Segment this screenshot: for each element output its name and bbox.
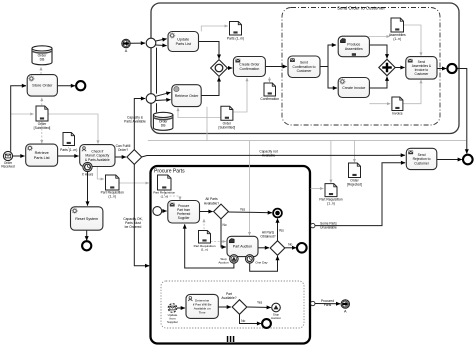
svg-text:(1..n): (1..n)	[161, 194, 168, 198]
svg-text:(1..n): (1..n)	[108, 195, 116, 199]
wire: gw3 yes to Stop Auction throw	[247, 306, 271, 309]
svg-text:No: No	[288, 242, 292, 246]
wire: timer to Reset System	[87, 172, 89, 206]
svg-text:Procure Parts: Procure Parts	[154, 169, 185, 175]
task: Part Auction	[227, 236, 258, 256]
gateway: Can Fulfill Order?	[116, 144, 142, 165]
association: Produce Assemblies to Assemblies doc	[369, 36, 390, 38]
wire: Capacity not Available flow	[142, 155, 405, 157]
wire: inclusive gw to Create Order Confirmation	[227, 67, 232, 69]
svg-text:Customer: Customer	[414, 161, 430, 165]
wire: circle2 to Retrieve Order a	[156, 92, 171, 96]
association: Check task to Part Requisition doc	[97, 167, 104, 179]
wire: circle rail lower	[156, 103, 158, 112]
task: Send Confirmation to Customer	[288, 56, 320, 78]
gateway: inclusive merge	[211, 60, 228, 77]
svg-text:Send Order to Customer: Send Order to Customer	[337, 6, 385, 11]
data object: Invoice	[392, 97, 403, 115]
wire: procure start to Procure task	[162, 210, 167, 212]
wire: start to Store Order	[11, 86, 26, 152]
svg-text:be Ordered: be Ordered	[125, 225, 142, 229]
marker: multi-instance bars	[227, 336, 235, 342]
svg-text:A: A	[344, 310, 347, 314]
svg-text:Available?: Available?	[221, 296, 236, 300]
wire: Send Confirmation branch up	[320, 45, 336, 67]
event: link catch A	[122, 39, 130, 53]
svg-text:Supplier: Supplier	[167, 320, 178, 324]
event: boundary signal Stop Auction	[230, 255, 238, 263]
wire: Procure task to gw1	[200, 211, 213, 213]
container: top-level process	[151, 3, 459, 134]
label: Capacity & Parts Available	[124, 115, 146, 123]
wire: gateway down to Procure Parts	[134, 164, 149, 266]
label: No below gw1	[222, 223, 226, 227]
wire: Retrieve Parts List to Check	[58, 155, 79, 157]
wire: circle rail upper	[156, 48, 158, 94]
event: end after Reset System	[82, 241, 91, 250]
wire: Create Invoice to parallel gw	[369, 77, 387, 88]
event: edge circle 2	[146, 94, 156, 104]
event: link throw A bottom	[341, 300, 349, 314]
event: boundary timer One Day	[246, 255, 254, 263]
svg-text:Available: Available	[262, 153, 275, 157]
label: Yes gw2	[279, 228, 285, 232]
svg-text:Yes: Yes	[240, 207, 246, 211]
svg-text:Parts (1..m): Parts (1..m)	[60, 148, 77, 152]
label: No gw3	[241, 319, 245, 323]
label: Some Parts Unavailable	[320, 222, 337, 230]
task: Retrieve Parts List	[26, 144, 58, 166]
svg-text:Parts: Parts	[324, 303, 332, 307]
svg-text:[Submitted]: [Submitted]	[219, 125, 236, 129]
event: es end	[262, 319, 271, 328]
svg-text:No: No	[222, 223, 226, 227]
svg-text:Update: Update	[177, 38, 189, 42]
association: Order[Submitted] to Store Order	[41, 98, 43, 106]
wire: Produce Assemblies to parallel gw	[369, 45, 387, 58]
wire: link A to circle1	[130, 42, 145, 44]
svg-text:Invoice: Invoice	[392, 111, 403, 115]
association: Order[Submitted] to Check task top	[48, 114, 98, 144]
data store: Order DB left	[32, 46, 52, 65]
association: rail to Order[Rejected] doc	[353, 141, 355, 163]
wire: Send Rejection to end	[437, 159, 462, 161]
wire: gw1 yes to terminate	[228, 211, 272, 214]
svg-text:Parts Available: Parts Available	[124, 119, 146, 123]
task: Create Invoice	[338, 78, 369, 98]
association: Order[Submitted] to left rail	[11, 113, 34, 115]
event subprocess: auction updates	[161, 281, 304, 328]
svg-text:Create Invoice: Create Invoice	[342, 86, 365, 90]
group: Send Order to Customer	[282, 8, 440, 126]
task: Reset System	[71, 207, 103, 230]
svg-text:Yes: Yes	[257, 300, 263, 304]
data object: Part Requisition right	[319, 184, 342, 206]
svg-text:Parts (1..m): Parts (1..m)	[227, 37, 244, 41]
label: Yes gw3	[257, 300, 263, 304]
association: Invoice doc to Send task	[403, 80, 421, 104]
svg-text:Store Order: Store Order	[32, 83, 53, 88]
task: Store Order	[27, 75, 57, 97]
data object: Parts (1..m) top	[227, 22, 244, 41]
task: Check if Manuf. Capacity	[80, 145, 115, 167]
wire: gw2 no to end	[285, 247, 296, 249]
event: end rejection	[463, 155, 473, 165]
wire: start to Retrieve Parts List	[13, 155, 25, 157]
association: Create Invoice to Invoice doc	[369, 103, 390, 105]
task: Create Order Confirmation	[233, 57, 265, 77]
wire: One Day to gw2	[250, 256, 278, 271]
svg-text:DB: DB	[40, 58, 45, 62]
association: Create Order Confirmation to Confirmation doc	[269, 77, 271, 82]
wire: gateway up to circle2	[134, 99, 145, 150]
wire: gw1 no to Part Auction	[221, 219, 226, 247]
association: Part Requisition doc to Procure task	[165, 191, 181, 201]
data object: Assemblies (1..n)	[389, 18, 406, 41]
association: long gray rail	[148, 140, 466, 142]
wire: Retrieve Order to inclusive gw	[201, 77, 219, 95]
marker: Produce Assemblies loop	[352, 53, 356, 56]
svg-text:Time: Time	[199, 310, 206, 314]
svg-text:Order?: Order?	[118, 148, 128, 152]
wire: Determine task to gw3	[218, 306, 231, 308]
svg-text:(1..n): (1..n)	[393, 37, 401, 41]
port: Procured Parts	[311, 301, 315, 305]
event: terminate	[273, 209, 282, 218]
association: Retrieve Order down rail	[206, 107, 208, 141]
task: Retrieve Order	[172, 85, 201, 107]
label: Capacity not Available	[259, 149, 277, 157]
gateway: All Parts Available?	[204, 197, 228, 219]
task: Produce Assemblies	[338, 36, 369, 57]
wire: Stop Auction loop to Procure task	[185, 224, 234, 268]
label: Stop Auction label	[218, 257, 229, 265]
data store: Order DB top	[153, 112, 173, 130]
data object: Parts (1..m) left	[60, 133, 77, 152]
svg-text:Reset System: Reset System	[75, 217, 98, 221]
svg-text:Auction: Auction	[271, 316, 281, 320]
svg-text:A: A	[125, 49, 128, 53]
svg-text:Confirmation: Confirmation	[260, 97, 279, 101]
svg-text:Supplier: Supplier	[178, 216, 191, 220]
task: Procure Part from Preferred Supplier	[168, 201, 200, 224]
association: Order[Submitted] to Retrieve Parts List	[41, 122, 43, 144]
task: Update Parts List	[168, 32, 199, 52]
svg-text:No: No	[241, 319, 245, 323]
association: Part Requisition doc to Procure Parts	[120, 182, 149, 184]
association: Parts doc assoc	[68, 144, 70, 149]
svg-text:Parts List: Parts List	[176, 42, 191, 46]
wire: Procured Parts to link A	[315, 303, 340, 305]
svg-text:Retrieve: Retrieve	[35, 151, 49, 155]
data object: Part Requisition procure top	[153, 175, 175, 198]
wire: Create Order Confirmation to Send Confirmation	[265, 66, 286, 68]
event: procure start	[153, 207, 162, 216]
data object: Confirmation	[260, 83, 279, 101]
svg-text:One Day: One Day	[255, 261, 268, 265]
svg-text:[Submitted]: [Submitted]	[34, 126, 51, 130]
data object: Order [Submitted] top	[219, 106, 236, 129]
label: Capacity OK Parts Must be Ordered	[123, 217, 143, 229]
svg-text:Customer: Customer	[297, 69, 313, 73]
data object: Order [Submitted] left	[34, 106, 51, 130]
wire: gw2 yes to terminate	[277, 219, 279, 241]
wire: circle1 to Update Parts List b	[156, 44, 167, 47]
svg-text:Unavailable: Unavailable	[320, 226, 337, 230]
svg-text:Create Order: Create Order	[239, 63, 260, 67]
label: No gw2	[288, 242, 292, 246]
svg-text:(1..n): (1..n)	[327, 202, 335, 206]
subprocess: Procure Parts	[151, 166, 311, 344]
wire: parallel gw to Send Assemblies	[395, 67, 405, 69]
svg-text:Received: Received	[1, 165, 15, 169]
svg-text:Obtained?: Obtained?	[260, 235, 275, 239]
wire: Reset System to end	[86, 230, 88, 240]
svg-text:Assemblies: Assemblies	[345, 47, 363, 51]
wire: Check to Can Fulfill gateway	[115, 156, 126, 158]
event: end some parts	[297, 243, 307, 253]
event: end after Store Order	[76, 81, 85, 90]
wire: Send Assemblies to end	[437, 68, 446, 70]
wire: es start to Determine task	[177, 307, 185, 309]
svg-text:Parts List: Parts List	[34, 156, 51, 160]
svg-text:X Hours: X Hours	[82, 173, 94, 177]
wire: Update Parts List to inclusive gw	[199, 42, 220, 59]
label: One Day label	[255, 261, 268, 265]
wire: circle1 to Update Parts List a	[156, 39, 167, 41]
task: Determine if Part Will Be Available	[186, 294, 218, 318]
svg-text:Available?: Available?	[204, 201, 219, 205]
event: edge circle 1	[146, 38, 156, 48]
wire: circle2 to Retrieve Order b	[156, 99, 171, 102]
svg-text:Customer: Customer	[414, 72, 429, 76]
event: es message start Update from Supplier	[167, 304, 178, 324]
svg-text:DB: DB	[161, 124, 166, 128]
association: Assemblies doc to Send task	[404, 25, 421, 56]
wire: Store Order to end	[57, 85, 75, 87]
association: Store Order to Order DB	[40, 67, 42, 74]
event: message start Order Received	[1, 151, 15, 168]
association: Update Parts List to Parts doc	[201, 26, 228, 31]
task: Send Rejection to Customer	[406, 148, 437, 169]
gateway: parallel join	[379, 59, 395, 75]
svg-text:[Rejected]: [Rejected]	[347, 183, 362, 187]
svg-text:Part Auction: Part Auction	[233, 245, 252, 249]
event: end send order	[447, 64, 456, 73]
data object: Part Requisition below check	[101, 175, 124, 199]
svg-text:& Parts Available: & Parts Available	[85, 158, 110, 162]
wire: Some Parts Unavailable flow	[315, 163, 405, 226]
association: Order DB / Order doc to Retrieve Order	[178, 108, 220, 118]
port: Some Parts Unavailable	[311, 223, 315, 227]
event: signal throw Stop Auction	[271, 303, 281, 320]
association: Part Requisition mid doc to Part Auction	[211, 241, 226, 243]
svg-text:Auction: Auction	[218, 261, 229, 265]
data object: Order [Rejected]	[347, 163, 362, 187]
association: Order[Submitted] to Create Order Confirmation	[233, 78, 247, 112]
wire: Send Confirmation branch down	[328, 67, 337, 89]
wire: end to rejection end rail	[457, 69, 467, 154]
wire: gw3 no to end	[240, 315, 262, 324]
label: Yes near gw1 top	[240, 207, 246, 211]
svg-text:Confirmation: Confirmation	[239, 67, 259, 71]
task: Send Assemblies and Invoice	[406, 57, 437, 80]
svg-text:(1..n): (1..n)	[201, 248, 208, 252]
association: Procure Parts to Part Requisition right doc	[311, 188, 324, 190]
event: timer boundary X Hours	[82, 162, 94, 176]
svg-text:Yes: Yes	[279, 228, 285, 232]
svg-text:Retrieve Order: Retrieve Order	[175, 94, 199, 98]
association: doc rail inside procure	[203, 219, 205, 229]
data object: Part Requisition procure mid	[194, 231, 216, 252]
association: rail down to Part Auction	[249, 141, 251, 236]
gateway: All Parts Obtained?	[260, 231, 284, 256]
svg-text:Produce: Produce	[347, 43, 360, 47]
gateway: Part Available?	[221, 292, 246, 314]
wire: Part Auction to gw2	[258, 247, 269, 249]
label: Procured Parts	[321, 299, 334, 307]
association: rail to Part Requisition right doc	[330, 141, 332, 183]
